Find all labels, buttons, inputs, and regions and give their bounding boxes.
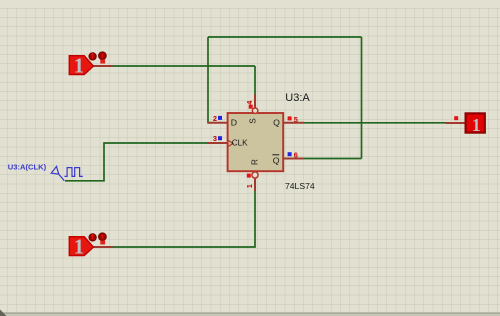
svg-text:74LS74: 74LS74 <box>285 181 315 191</box>
logicstate bottom (drives R) <box>69 235 93 259</box>
clock generator symbol <box>51 166 83 180</box>
logic probe (Q output) <box>466 113 485 135</box>
logicstate top toggle buttons <box>89 52 106 64</box>
svg-text:S: S <box>249 118 258 124</box>
S pin bubble <box>252 108 257 113</box>
pin stub pin6 <box>283 158 304 160</box>
pin stub logicstate bottom <box>93 246 113 248</box>
logic level square pin2 (blue) <box>218 116 222 120</box>
bottom window edge <box>0 312 500 314</box>
logic level square pin3 (blue) <box>218 136 222 140</box>
wire: feedback top horizontal (Qbar to D) <box>208 36 362 38</box>
svg-text:Q: Q <box>273 118 280 128</box>
svg-text:R: R <box>251 159 260 165</box>
svg-text:Q: Q <box>273 155 280 165</box>
logicstate top (drives S) <box>69 54 93 78</box>
pin stub pin4 <box>254 95 256 108</box>
IC U3:A 74LS74 D flip-flop body <box>228 113 284 171</box>
pin stub pin5 <box>283 122 304 124</box>
pin stub pin1 <box>254 179 256 191</box>
wire: S net vertical <box>254 66 256 95</box>
wire: feedback right vertical down to Qbar <box>361 37 363 159</box>
pin stub probe <box>446 122 466 124</box>
logic level square probe (red) <box>454 116 458 120</box>
svg-text:1: 1 <box>472 115 481 135</box>
wire: S net horizontal (logicstate DS1 to S pin) <box>112 65 255 67</box>
svg-text:D: D <box>231 118 237 128</box>
pin stub logicstate top <box>93 65 113 67</box>
logic level square pin6 (blue) <box>288 152 292 156</box>
logic level square pin1 (red) <box>247 174 251 178</box>
wire: clock net <box>65 143 208 181</box>
svg-text:1: 1 <box>245 184 254 188</box>
svg-text:3: 3 <box>213 134 217 143</box>
logic level square pin5 (red) <box>288 116 292 120</box>
svg-text:1: 1 <box>74 54 85 78</box>
wire: feedback left vertical down to D <box>207 37 209 123</box>
svg-text:U3:A(CLK): U3:A(CLK) <box>8 163 47 172</box>
svg-text:U3:A: U3:A <box>285 92 310 104</box>
R pin bubble <box>252 172 258 178</box>
wire: Qbar horizontal <box>304 158 362 160</box>
pin stub pin3 <box>207 142 227 144</box>
wire: R net <box>112 191 255 248</box>
pin stub pin2 <box>207 122 227 124</box>
wire: Q output to probe <box>304 122 446 124</box>
svg-text:1: 1 <box>74 235 85 259</box>
svg-text:6: 6 <box>294 151 298 160</box>
clock edge marker <box>228 140 233 146</box>
logicstate bottom toggle buttons <box>89 233 106 245</box>
logic level square pin4 (red) <box>249 105 253 109</box>
svg-text:CLK: CLK <box>232 138 248 147</box>
svg-text:2: 2 <box>213 114 217 123</box>
svg-text:5: 5 <box>294 115 298 124</box>
